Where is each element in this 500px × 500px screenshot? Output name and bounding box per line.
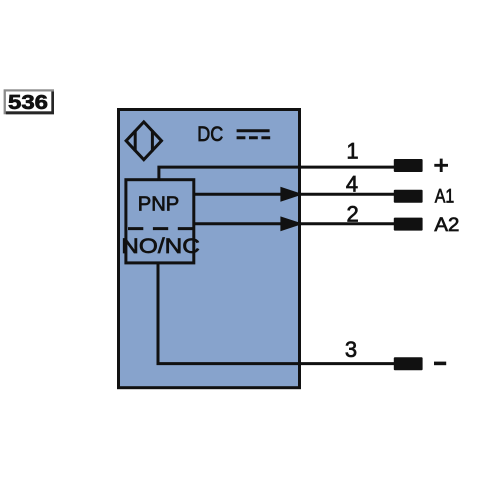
svg-text:1: 1 xyxy=(346,139,358,164)
wire 2 xyxy=(195,222,395,225)
svg-text:NO/NC: NO/NC xyxy=(121,235,200,258)
output block U1 xyxy=(126,180,194,263)
arrow on wire 4 xyxy=(280,187,303,202)
proximity sensor symbol xyxy=(126,122,161,160)
wire 3 xyxy=(158,262,395,364)
dashed divider xyxy=(128,227,193,230)
terminal 4 xyxy=(394,190,423,203)
sensor body xyxy=(119,110,300,388)
svg-text:A2: A2 xyxy=(434,214,459,236)
svg-text:536: 536 xyxy=(8,91,48,114)
wire 1 xyxy=(159,167,395,181)
minus label xyxy=(434,362,446,366)
svg-text:DC: DC xyxy=(197,123,223,146)
DC supply symbol xyxy=(237,131,271,138)
terminal 3 xyxy=(394,357,423,370)
svg-text:2: 2 xyxy=(346,202,358,227)
terminal 1 xyxy=(394,159,423,172)
svg-text:A1: A1 xyxy=(435,186,455,208)
figure code box 536 xyxy=(4,89,54,114)
terminal 2 xyxy=(394,218,423,231)
svg-text:3: 3 xyxy=(345,337,357,362)
svg-text:PNP: PNP xyxy=(138,194,180,216)
svg-text:4: 4 xyxy=(346,172,358,197)
arrow on wire 2 xyxy=(280,216,303,231)
plus label xyxy=(434,159,448,172)
wire 4 xyxy=(195,193,395,196)
